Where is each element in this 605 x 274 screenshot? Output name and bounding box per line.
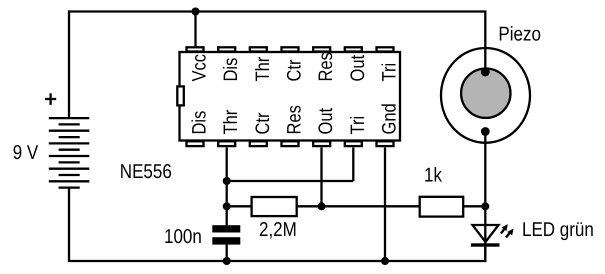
battery plus sign — [45, 93, 56, 105]
svg-text:Res: Res — [316, 52, 337, 81]
pin Out bottom — [313, 141, 330, 146]
pin Thr bottom — [218, 141, 235, 146]
LED light arrow 1 — [501, 224, 508, 234]
IC U1 NE556 body — [180, 52, 401, 141]
resistor R1 2,2M — [252, 197, 297, 216]
piezo disc — [461, 69, 510, 118]
svg-text:Ctr: Ctr — [284, 59, 305, 82]
battery B1 9V — [49, 118, 90, 188]
wire capacitor to bottom rail — [226, 245, 228, 261]
LED D1 triangle — [473, 225, 499, 242]
svg-text:Gnd: Gnd — [379, 103, 400, 134]
pin Out top — [345, 47, 362, 51]
svg-text:Thr: Thr — [252, 56, 273, 81]
piezo bottom contact dot — [481, 127, 490, 136]
capacitor C1 100n top plate — [212, 225, 240, 232]
svg-text:1k: 1k — [424, 164, 442, 186]
pin Tri top — [377, 47, 394, 51]
wire Vcc drop — [194, 12, 196, 47]
wire Out drop — [320, 148, 322, 207]
node junction top rail / Vcc — [192, 8, 200, 16]
svg-text:Out: Out — [347, 54, 368, 81]
node 1k/LED junction — [481, 202, 489, 210]
pin Dis top — [218, 47, 235, 51]
pin Dis bottom — [187, 141, 204, 146]
LED light arrow 2 — [506, 229, 514, 238]
svg-text:Vcc: Vcc — [189, 54, 210, 82]
resistor R2 1k — [420, 197, 464, 217]
wire horizontal feedback to 1k and LED — [227, 205, 486, 207]
pin Ctr top — [282, 47, 299, 51]
wire Thr drop to capacitor — [226, 148, 228, 226]
wire top rail from battery + to piezo — [69, 12, 485, 118]
node Thr/2,2M junction — [223, 202, 231, 210]
svg-text:Piezo: Piezo — [498, 23, 541, 45]
wire piezo bottom to LED — [484, 132, 486, 262]
IC pin1 index marker — [177, 86, 184, 105]
svg-text:LED grün: LED grün — [522, 218, 594, 240]
pin Gnd bottom — [377, 141, 394, 146]
svg-text:NE556: NE556 — [120, 160, 172, 182]
node cap/bottom rail junction — [223, 257, 231, 265]
pin Ctr bottom — [250, 141, 267, 146]
node Out/2,2M junction — [318, 202, 326, 210]
wire bottom rail from battery - to LED — [69, 188, 485, 261]
svg-text:Ctr: Ctr — [252, 112, 273, 135]
svg-text:100n: 100n — [164, 225, 202, 247]
piezo outer ring — [441, 48, 530, 143]
pin Tri bottom — [345, 141, 362, 146]
svg-text:Res: Res — [284, 105, 305, 134]
svg-text:Dis: Dis — [221, 58, 242, 82]
node Thr/Tri junction — [223, 177, 231, 185]
wire horizontal Thr-Tri — [227, 180, 354, 182]
svg-text:Thr: Thr — [221, 109, 242, 134]
pin Res bottom — [282, 141, 299, 146]
svg-text:9 V: 9 V — [13, 141, 39, 163]
svg-text:Tri: Tri — [379, 63, 400, 82]
piezo top contact dot — [481, 68, 490, 77]
pin Thr top — [250, 47, 267, 51]
pin Res top — [313, 47, 330, 51]
node Gnd/bottom rail junction — [381, 257, 389, 265]
wire Gnd drop — [384, 148, 386, 262]
LED D1 cathode bar — [471, 243, 500, 246]
svg-text:Dis: Dis — [189, 111, 210, 135]
svg-text:Tri: Tri — [347, 116, 368, 135]
svg-text:2,2M: 2,2M — [259, 219, 297, 241]
svg-text:Out: Out — [316, 107, 337, 134]
wire Tri drop — [352, 148, 354, 182]
capacitor C1 100n bottom plate — [212, 237, 240, 244]
pin Vcc top — [187, 47, 204, 51]
